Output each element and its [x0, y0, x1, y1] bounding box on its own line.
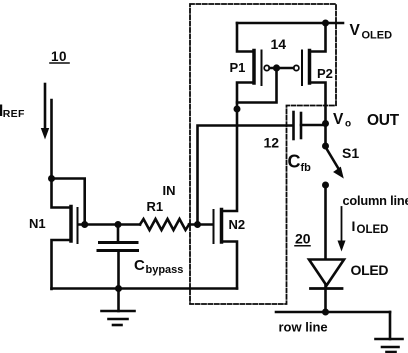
wire gate bus: [270, 67, 294, 70]
label 20: [295, 231, 311, 247]
svg-text:REF: REF: [3, 108, 25, 120]
node Cbypass bottom: [115, 285, 122, 292]
diode OLED: [309, 260, 344, 313]
ground left: [102, 289, 135, 326]
svg-text:V: V: [350, 22, 361, 39]
wire feedback riser: [198, 126, 294, 225]
svg-text:bypass: bypass: [146, 264, 184, 276]
wire bottom rail: [52, 287, 238, 290]
node Cbypass top: [115, 221, 122, 228]
label Cfb: [288, 152, 312, 175]
svg-text:IN: IN: [163, 183, 176, 198]
wire Vo to switch: [324, 124, 327, 146]
svg-text:20: 20: [295, 231, 311, 247]
arrow IREF current: [42, 84, 49, 138]
dashed block boundary 10/12: [190, 4, 336, 304]
svg-text:column line: column line: [343, 193, 408, 208]
switch S1: [322, 143, 343, 189]
transistor P2: [294, 23, 326, 124]
capacitor Cfb: [294, 112, 326, 139]
ground right: [376, 312, 403, 352]
transistor N2: [214, 109, 238, 289]
label 10: [50, 49, 69, 64]
svg-text:fb: fb: [301, 162, 312, 174]
transistor N1: [52, 207, 78, 290]
wire IN to N2 gate: [189, 223, 213, 226]
svg-text:R1: R1: [147, 199, 164, 214]
wire N1 drain: [52, 179, 71, 208]
svg-text:N2: N2: [229, 217, 246, 232]
svg-text:N1: N1: [29, 216, 46, 231]
svg-text:V: V: [333, 111, 344, 128]
wire VOLED rail: [237, 22, 343, 25]
node Vo: [322, 120, 329, 127]
svg-text:S1: S1: [342, 145, 359, 161]
transistor P1: [237, 51, 269, 110]
svg-text:P2: P2: [317, 66, 333, 81]
svg-text:OLED: OLED: [362, 30, 393, 42]
label Cbypass: [134, 257, 183, 276]
arrow IOLED current: [338, 207, 345, 250]
wire gate to drain tie: [237, 68, 277, 103]
wire reference input: [50, 100, 53, 179]
node P1 drain / N2 drain: [234, 106, 241, 113]
wire row line: [276, 311, 390, 314]
node VOLED: [322, 20, 329, 27]
capacitor Cbypass: [98, 225, 138, 289]
label Vo: [333, 111, 351, 130]
svg-text:10: 10: [51, 49, 67, 64]
svg-text:OLED: OLED: [357, 224, 389, 236]
svg-text:12: 12: [264, 135, 280, 151]
svg-text:C: C: [134, 257, 145, 274]
svg-text:o: o: [345, 119, 351, 130]
wire P1 source: [237, 23, 253, 52]
node IN: [194, 221, 201, 228]
node N1 gate junction: [81, 221, 88, 228]
label IOLED: [352, 218, 389, 236]
svg-text:C: C: [288, 152, 301, 172]
node N1 drain junction: [48, 175, 55, 182]
svg-text:14: 14: [271, 36, 287, 52]
node row line: [322, 309, 329, 316]
wire IN line left: [118, 223, 140, 226]
label IREF: [0, 105, 25, 121]
svg-text:row line: row line: [279, 320, 328, 335]
svg-text:OLED: OLED: [351, 262, 389, 278]
wire column line: [324, 185, 327, 259]
wire N1 gate: [78, 223, 118, 226]
label VOLED: [350, 22, 393, 42]
svg-text:P1: P1: [230, 60, 246, 75]
svg-text:OUT: OUT: [367, 112, 400, 129]
resistor R1: [140, 219, 189, 230]
svg-text:I: I: [352, 218, 356, 234]
node gate bus: [273, 64, 280, 71]
wire N1 diode tie: [52, 179, 85, 225]
